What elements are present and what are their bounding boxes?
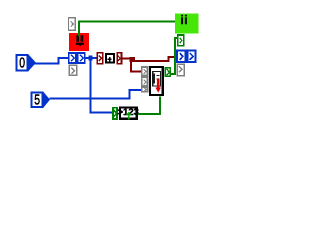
- green port under ii indicator: [178, 35, 184, 46]
- wire: J2 down into N4 top port: [131, 62, 141, 71]
- wire: 5 to node N4 lower port: [50, 90, 142, 99]
- svg-text:0: 0: [19, 56, 25, 72]
- N1 bottom gray port: [69, 65, 76, 75]
- N4 port B: [142, 77, 148, 86]
- N2 right maroon port: [117, 53, 121, 64]
- node N4 port A: [142, 67, 148, 76]
- ii indicator green box: [175, 13, 198, 33]
- wire: +1 out to junction J2: [122, 57, 132, 59]
- wire: J1 down to N5: [91, 60, 112, 112]
- N1 blue port right: [78, 53, 85, 63]
- numeric constant 5: [32, 92, 50, 108]
- N5 icon >123: [117, 107, 138, 120]
- right stack blue port left: [177, 51, 185, 62]
- N4 port C: [142, 87, 148, 92]
- wire: 0 to blue ports: [35, 58, 69, 63]
- node N1 top gray port: [68, 18, 75, 31]
- junction J1 blue: [89, 56, 93, 61]
- right stack blue port right: [187, 51, 195, 62]
- svg-text:ii: ii: [181, 15, 189, 27]
- wire: N4 out up to port under ii: [171, 38, 177, 74]
- node N5 green in port: [113, 108, 117, 119]
- N1 blue port left: [69, 53, 76, 63]
- wire: ports to junction J1: [86, 57, 97, 59]
- wire: J2 right to right-stack blue port: [135, 57, 176, 62]
- N4 icon: insert-into-array: [150, 67, 163, 95]
- red !! box N1: [69, 33, 89, 51]
- N2 +1 icon: [106, 54, 115, 63]
- node N2 +1 : left maroon port: [97, 53, 103, 64]
- right stack gray port: [177, 64, 184, 76]
- N4 green out port: [165, 68, 170, 77]
- junction J2 maroon: [130, 57, 135, 62]
- wire: boolean green from red box top to ii indicator: [79, 22, 175, 37]
- wire: N5 out right and up to N4 bottom: [138, 97, 160, 115]
- svg-text:5: 5: [34, 92, 40, 108]
- numeric constant 0: [17, 55, 36, 72]
